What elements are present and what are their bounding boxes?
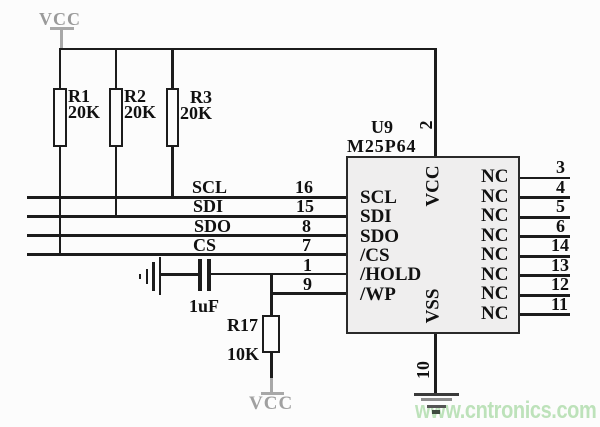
resistor R2 body <box>109 88 123 147</box>
IC pin name VCC (rotated) <box>424 165 443 206</box>
label M25P64 <box>347 137 416 155</box>
IC pin name NC (pin 13) <box>481 265 508 284</box>
VCC power symbol (top left): label <box>39 10 81 28</box>
IC pin name SDO <box>360 227 399 246</box>
pin number 4 <box>556 178 565 196</box>
wire: IC pin 10 (VSS) down <box>434 334 437 394</box>
wire: pin 12 stub <box>520 294 570 297</box>
ground symbol (bottom): bar 3 <box>427 405 446 408</box>
wire: SDI bus <box>27 215 346 218</box>
IC pin name NC (pin 11) <box>481 304 508 323</box>
label 1uF <box>189 297 219 315</box>
ground symbol (left, rotated): bar 4 <box>139 274 142 279</box>
IC pin name NC (pin 12) <box>481 284 508 303</box>
wire: SCL bus <box>27 196 346 199</box>
wire: R1 top stem <box>59 48 62 89</box>
label R1 <box>68 87 90 105</box>
label 20K (R3) <box>180 104 212 122</box>
resistor R3 body <box>166 88 180 147</box>
IC U9 box <box>346 156 520 334</box>
VCC power symbol (top left): stem <box>60 29 63 48</box>
pin number 11 <box>551 295 568 313</box>
wire: R3 top stem <box>171 48 174 89</box>
label 10K <box>227 345 259 363</box>
VCC power symbol (bottom): bar <box>261 392 285 395</box>
label 20K (R1) <box>68 103 100 121</box>
VCC power symbol (bottom): label <box>249 394 293 413</box>
IC pin name NC (pin 4) <box>481 187 508 206</box>
ground symbol (bottom): bar 4 fragment <box>432 410 440 414</box>
pin number 13 <box>551 256 569 274</box>
pin number 15 <box>296 197 314 215</box>
label SDI (net) <box>193 197 223 215</box>
wire: pin 11 stub <box>520 313 570 316</box>
wire: pin 5 stub <box>520 216 570 219</box>
wire: pin 4 stub <box>520 196 570 199</box>
resistor R17 body <box>262 315 280 353</box>
watermark www.cntronics.com <box>415 399 596 423</box>
IC pin name NC (pin 14) <box>481 245 508 264</box>
IC pin name SCL <box>360 188 397 207</box>
capacitor C1 plate right <box>207 259 211 291</box>
wire: R1 bottom stem <box>59 147 62 256</box>
pin number 2 (rotated) <box>417 121 435 130</box>
IC pin name VSS (rotated) <box>424 289 443 324</box>
pin number 14 <box>551 236 569 254</box>
VCC power symbol (top left): bar <box>50 27 74 30</box>
label R2 <box>124 87 146 105</box>
wire: pin 3 stub <box>520 177 570 180</box>
wire: junction drop to R17 <box>270 273 273 316</box>
wire: CS bus <box>27 253 346 256</box>
label 20K (R2) <box>124 103 156 121</box>
pin number 8 <box>302 217 311 235</box>
resistor R1 body <box>53 88 67 147</box>
pin number 6 <box>556 217 565 235</box>
label SDO (net) <box>194 217 231 235</box>
IC pin name SDI <box>360 207 392 226</box>
IC pin name /WP <box>360 285 396 304</box>
label CS (net) <box>193 236 216 254</box>
wire: R2 bottom stem <box>115 147 118 217</box>
wire: R3 bottom stem <box>171 147 174 198</box>
IC pin name /HOLD <box>360 265 421 284</box>
pin number 9 <box>303 275 312 293</box>
wire: SDO bus <box>27 234 346 237</box>
ground symbol (bottom): bar 1 <box>414 393 459 396</box>
wire: pin 9 (/WP) to junction <box>270 292 346 295</box>
pin number 10 (rotated) <box>414 361 432 379</box>
ground symbol (left, rotated): bar 2 <box>152 262 155 291</box>
VCC power symbol (bottom): stem <box>270 378 273 392</box>
IC pin name NC (pin 6) <box>481 226 508 245</box>
wire: R2 top stem <box>115 48 118 89</box>
pin number 5 <box>556 197 565 215</box>
ground symbol (left, rotated): bar 1 <box>159 257 162 295</box>
pin number 1 <box>303 256 312 274</box>
pin number 12 <box>551 275 569 293</box>
wire: pin 14 stub <box>520 255 570 258</box>
wire: pin 13 stub <box>520 274 570 277</box>
IC pin name NC (pin 5) <box>481 206 508 225</box>
ground symbol (left, rotated): bar 3 <box>146 269 149 284</box>
wire: VCC rail (horizontal) <box>59 48 437 51</box>
ground symbol (bottom): bar 2 <box>421 398 452 401</box>
pin number 7 <box>302 236 311 254</box>
wire: R17 bottom stem <box>270 353 273 380</box>
capacitor C1 plate left <box>198 259 202 291</box>
IC pin name NC (pin 3) <box>481 167 508 186</box>
wire: rail drop to IC pin 2 <box>434 48 437 157</box>
label U9 <box>371 118 393 136</box>
label R3 <box>190 88 212 106</box>
label SCL (net) <box>192 178 227 196</box>
wire: ground to capacitor (pin 1 net) <box>160 273 198 276</box>
wire: pin 6 stub <box>520 235 570 238</box>
pin number 3 <box>556 158 565 176</box>
wire: capacitor to IC pin 1 (/HOLD) <box>211 273 346 276</box>
pin number 16 <box>295 178 313 196</box>
label R17 <box>227 316 258 334</box>
IC pin name /CS <box>360 246 390 265</box>
